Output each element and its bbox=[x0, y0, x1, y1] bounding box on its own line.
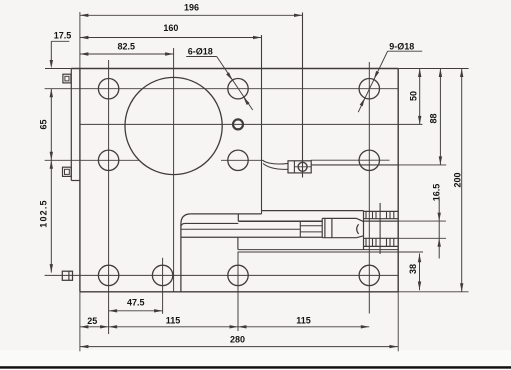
svg-text:9-Ø18: 9-Ø18 bbox=[389, 41, 414, 51]
svg-text:47.5: 47.5 bbox=[127, 298, 145, 308]
svg-text:280: 280 bbox=[230, 335, 245, 345]
svg-text:25: 25 bbox=[87, 316, 97, 326]
svg-text:6-Ø18: 6-Ø18 bbox=[188, 47, 213, 57]
svg-text:115: 115 bbox=[296, 315, 311, 325]
svg-text:17.5: 17.5 bbox=[54, 30, 72, 40]
svg-text:50: 50 bbox=[408, 91, 418, 101]
svg-text:160: 160 bbox=[163, 23, 178, 33]
svg-text:102.5: 102.5 bbox=[38, 199, 48, 228]
svg-text:38: 38 bbox=[408, 264, 418, 274]
svg-text:115: 115 bbox=[166, 315, 181, 325]
svg-text:82.5: 82.5 bbox=[118, 42, 136, 52]
svg-text:200: 200 bbox=[452, 172, 462, 187]
svg-text:16.5: 16.5 bbox=[431, 184, 441, 202]
svg-text:88: 88 bbox=[428, 113, 438, 123]
svg-text:196: 196 bbox=[184, 3, 199, 13]
svg-text:65: 65 bbox=[38, 119, 48, 129]
